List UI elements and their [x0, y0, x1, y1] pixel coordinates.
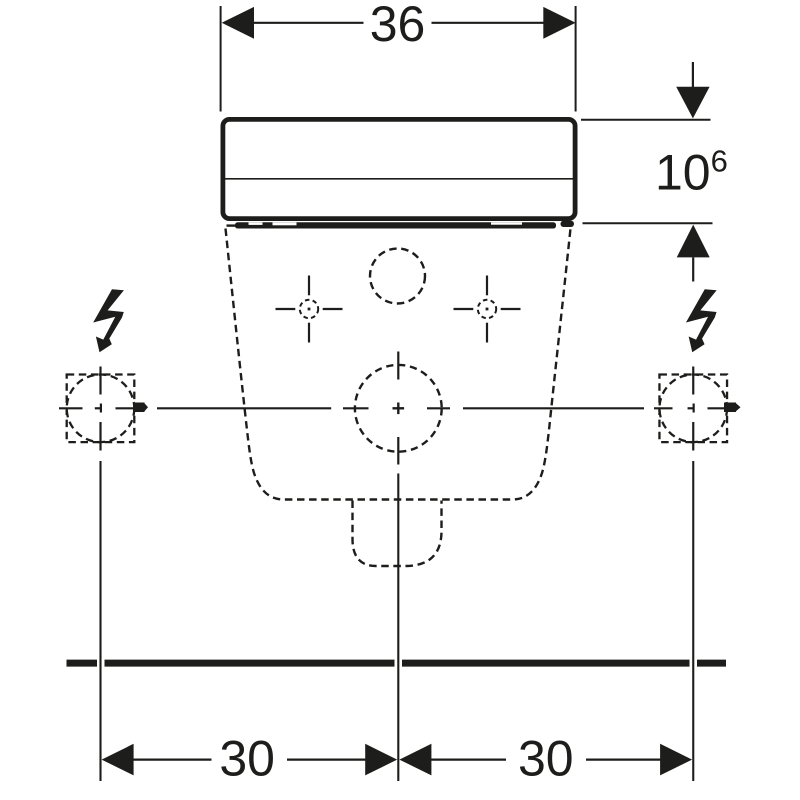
connection box right crosshair [688, 367, 695, 451]
wc seat strip [235, 222, 556, 228]
svg-text:36: 36 [370, 0, 426, 52]
flush pipe center cross [393, 403, 405, 415]
vertical centerline left [99, 461, 101, 781]
svg-text:106: 106 [655, 144, 728, 201]
flush pipe crosshair [343, 352, 450, 465]
connection box left [67, 375, 135, 443]
dimension 36 extension line left [220, 6, 222, 112]
bowl outline dashed [226, 229, 571, 500]
dimension 30 right line [430, 758, 662, 760]
wc seat right end cap [561, 221, 575, 227]
dimension 30 left arrow right [365, 744, 397, 776]
wc seat left dash [227, 224, 238, 226]
dimension 10-6 bottom extension line [583, 222, 713, 224]
electrical connection symbol left [93, 289, 124, 352]
dimension 36 arrow left [222, 7, 254, 39]
dimension 10-6 down arrow [676, 62, 709, 118]
dimension 30 right arrow right [660, 744, 692, 776]
drain bump dashed [353, 501, 442, 567]
fixing point right [454, 276, 521, 343]
wc seat strip gaps [249, 222, 523, 225]
horizontal centerline chain [59, 407, 724, 409]
connection box left spout [135, 403, 148, 413]
connection box right spout [724, 403, 741, 413]
svg-text:30: 30 [518, 731, 574, 787]
connection box right [659, 375, 727, 443]
cistern tank [223, 119, 575, 218]
dimension 10-6 up arrow [677, 225, 710, 282]
dimension 36 extension line right [575, 6, 577, 112]
svg-text:30: 30 [219, 731, 275, 787]
dimension 10-6 top extension line [581, 119, 711, 121]
flush pipe circle [355, 365, 442, 452]
dimension 30 right arrow left [399, 744, 431, 776]
electrical connection symbol right [686, 289, 717, 352]
dimension 30 left line [132, 758, 367, 760]
vertical centerline middle [397, 474, 399, 782]
cistern actuator plate line [223, 178, 576, 180]
water supply circle [370, 249, 425, 304]
floor line [67, 660, 727, 667]
connection box left crosshair [95, 367, 102, 451]
fixing point left [276, 276, 343, 343]
dimension 30 left arrow left [102, 744, 134, 776]
dimension 36 arrow right [543, 7, 575, 39]
dimension 36 line [252, 22, 544, 24]
vertical centerline right [692, 461, 694, 781]
